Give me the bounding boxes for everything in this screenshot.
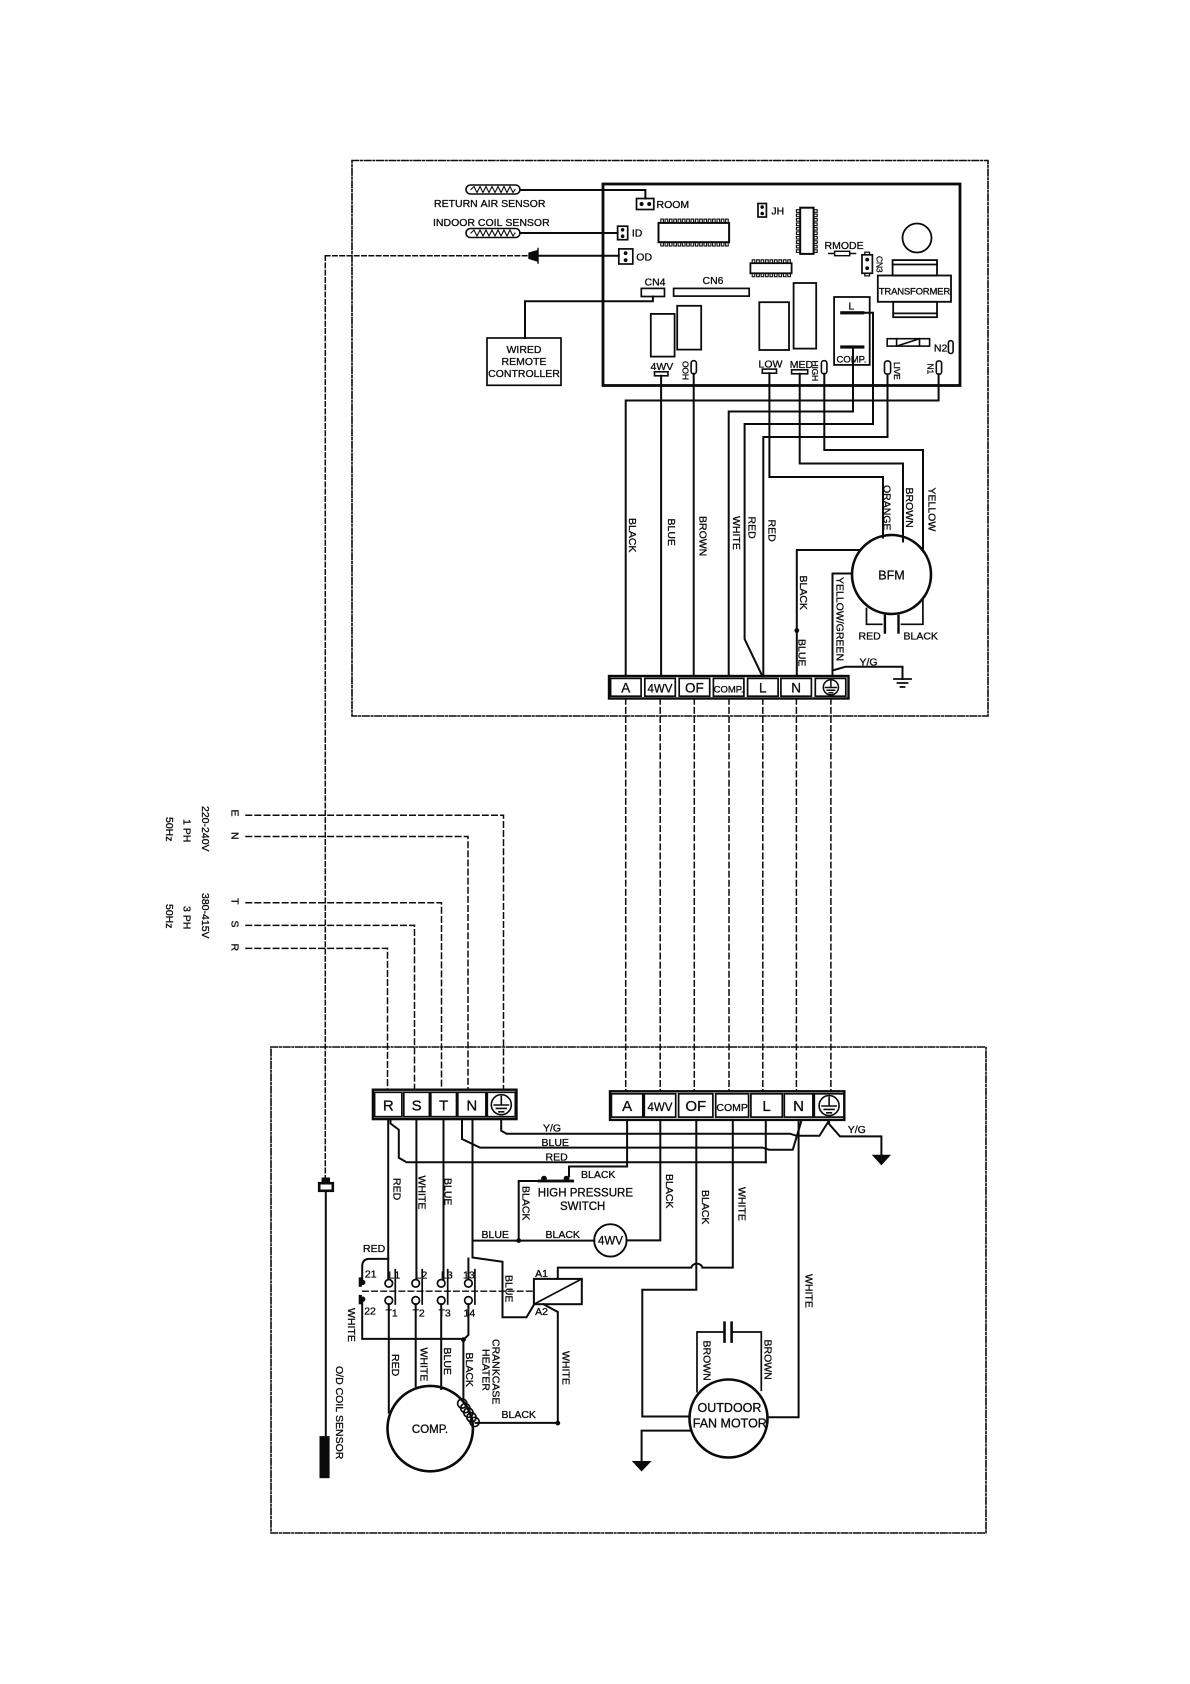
buzzer (circle) — [903, 224, 932, 253]
dashed interconnect wire 4WV: indoor to outdoor — [659, 699, 661, 1091]
dashed supply wire R — [246, 948, 388, 1089]
outdoor interconnect terminal cell A — [611, 1094, 642, 1117]
outdoor interconnect terminal cell OF — [679, 1094, 713, 1117]
relay K2 — [677, 306, 701, 350]
wire: supply N down / jog to A2 link — [473, 1119, 534, 1317]
junction: heater/A2 node — [555, 1421, 560, 1426]
svg-text:OF: OF — [685, 681, 704, 696]
outdoor fan motor — [690, 1380, 768, 1458]
wire BLACK: N1 pin to terminal A — [626, 374, 939, 676]
outdoor supply terminal cell T — [431, 1092, 457, 1116]
relay K1 — [651, 314, 675, 357]
svg-text:E: E — [229, 810, 241, 817]
svg-text:HIGH: HIGH — [810, 361, 820, 382]
junction: 4WV node — [516, 1238, 521, 1243]
svg-text:A1: A1 — [535, 1268, 548, 1280]
ground symbol (fan motor) — [633, 1462, 651, 1471]
svg-text:LIVE: LIVE — [892, 362, 902, 380]
connector ROOM — [637, 199, 654, 210]
svg-text:14: 14 — [464, 1308, 476, 1320]
wire RED: supply R to contactor L1 — [387, 1119, 389, 1279]
svg-text:BLACK: BLACK — [463, 1353, 475, 1387]
svg-text:T: T — [229, 898, 241, 905]
svg-text:BLUE: BLUE — [503, 1275, 515, 1302]
wire BLACK/BLUE: BFM to terminal N — [797, 550, 861, 676]
contactor coil terminal dots — [360, 1280, 365, 1285]
connector ID — [618, 226, 628, 240]
wire YELLOW: HIGH pin to fan motor BFM — [824, 374, 923, 551]
wire Y/G to chassis ground — [833, 667, 903, 679]
svg-text:N1: N1 — [926, 364, 936, 375]
svg-text:COMP.: COMP. — [412, 1424, 448, 1436]
indoor fan motor BFM — [852, 535, 931, 614]
svg-text:BLUE: BLUE — [441, 1348, 453, 1375]
wire: interconnect L drop — [765, 1120, 767, 1162]
dashed interconnect wire A: indoor to outdoor — [625, 699, 627, 1091]
wire WHITE: coil 22 to aux contact 14 — [362, 1302, 463, 1339]
svg-text:WHITE: WHITE — [803, 1274, 815, 1308]
wire: aux 13 riser — [467, 1259, 469, 1280]
outdoor supply terminal cell R — [375, 1092, 402, 1116]
dashed interconnect wire L: indoor to outdoor — [762, 699, 764, 1091]
svg-text:BLACK: BLACK — [626, 518, 638, 552]
svg-text:CN6: CN6 — [703, 275, 724, 287]
junction: black-blue splice — [794, 628, 799, 633]
outdoor supply terminal cell earth — [487, 1092, 515, 1116]
wire YELLOW/GREEN: BFM to terminal earth — [833, 574, 853, 677]
resistor RMODE component — [829, 253, 856, 255]
svg-text:HIGH PRESSURE: HIGH PRESSURE — [538, 1188, 634, 1200]
svg-text:4WV: 4WV — [598, 1236, 623, 1248]
dashed wire: O/D coil sensor line (horizontal run) — [325, 255, 527, 257]
svg-text:COMP.: COMP. — [714, 685, 744, 696]
svg-text:REMOTE: REMOTE — [502, 356, 547, 368]
indoor terminal earth symbol — [823, 680, 838, 695]
indoor coil sensor probe — [466, 229, 520, 238]
svg-text:BLACK: BLACK — [797, 576, 809, 610]
wire WHITE: interconnect COMP to coil A1 (hop over OF) — [558, 1120, 733, 1279]
svg-text:BLUE: BLUE — [542, 1137, 569, 1149]
outdoor supply terminal cell S — [404, 1092, 430, 1116]
wire WHITE: coil A2 to heater node — [544, 1304, 558, 1423]
contactor coil terminal 21/22 (RED feed) — [362, 1259, 388, 1280]
wired remote controller box — [487, 338, 561, 385]
indoor terminal cell 4WV — [645, 678, 676, 696]
outdoor interconnect terminal cell 4WV — [644, 1094, 675, 1117]
wire RED: supply R to interconnect L — [391, 1119, 766, 1162]
svg-text:LOW: LOW — [759, 359, 783, 371]
dashed supply wire T — [246, 903, 442, 1090]
pin N2 — [948, 341, 953, 354]
crankcase heater coil — [458, 1399, 480, 1427]
outdoor interconnect terminal cell N — [784, 1094, 813, 1117]
svg-text:WHITE: WHITE — [560, 1351, 572, 1385]
wire BLACK: 4WV valve to interconnect 4WV — [627, 1120, 661, 1241]
pin HIGH — [821, 361, 827, 374]
wire BLUE: supply N to 4WV valve node — [473, 1240, 595, 1242]
indoor terminal cell earth — [815, 678, 846, 696]
pad MED — [792, 370, 808, 374]
O/D coil sensor probe — [320, 1436, 330, 1478]
svg-text:A: A — [621, 681, 630, 696]
return air sensor probe — [466, 185, 520, 194]
svg-text:L1: L1 — [389, 1270, 401, 1282]
svg-text:Y/G: Y/G — [848, 1124, 866, 1136]
indoor PCB board outline — [603, 184, 960, 386]
wire WHITE: interconnect N to fan motor — [768, 1120, 799, 1417]
svg-text:3 PH: 3 PH — [181, 906, 193, 929]
svg-text:OUTDOOR: OUTDOOR — [698, 1401, 762, 1415]
wire BLACK: aux 14 to crankcase heater — [463, 1304, 468, 1399]
connector JH — [758, 204, 766, 218]
svg-text:RMODE: RMODE — [825, 240, 864, 252]
compressor relay K5 — [834, 297, 870, 365]
wire BLACK: HP switch to 4WV node — [519, 1181, 538, 1241]
svg-text:CN3: CN3 — [875, 256, 885, 273]
svg-text:CN4: CN4 — [645, 277, 666, 289]
svg-text:T2: T2 — [413, 1308, 425, 1320]
svg-text:L2: L2 — [416, 1270, 428, 1282]
svg-text:BROWN: BROWN — [903, 488, 915, 528]
wire RED: contactor T1 to compressor — [388, 1304, 390, 1412]
ground symbol (outdoor earth) — [873, 1155, 890, 1164]
svg-text:RED: RED — [766, 520, 778, 543]
wire: return air sensor to ROOM connector — [520, 190, 645, 199]
high pressure switch contacts — [538, 1180, 574, 1183]
outdoor interconnect earth symbol — [819, 1096, 839, 1116]
outdoor interconnect terminal cell earth — [814, 1094, 844, 1117]
wire: O/D coil sensor lead (solid) — [325, 1191, 327, 1436]
svg-text:ROOM: ROOM — [657, 199, 690, 211]
wire BLUE: supply N to interconnect N — [462, 1119, 801, 1150]
svg-text:21: 21 — [365, 1269, 377, 1281]
svg-text:4WV: 4WV — [651, 361, 674, 373]
svg-text:N: N — [793, 1098, 804, 1115]
svg-text:L: L — [762, 1098, 770, 1115]
wire: CN4 to wired remote controller — [525, 297, 653, 339]
svg-text:JH: JH — [771, 206, 784, 218]
svg-text:BLACK: BLACK — [502, 1409, 536, 1421]
svg-text:ORANGE: ORANGE — [881, 485, 893, 531]
svg-text:BLUE: BLUE — [442, 1178, 454, 1205]
svg-text:A2: A2 — [535, 1306, 548, 1318]
indoor terminal cell COMP. — [713, 678, 744, 696]
svg-text:FAN MOTOR: FAN MOTOR — [693, 1417, 767, 1431]
svg-text:L: L — [759, 681, 767, 696]
contactor contact L2/T2 — [412, 1280, 420, 1288]
connector OD — [619, 249, 633, 264]
dashed supply wire E — [246, 815, 504, 1089]
svg-text:INDOOR COIL SENSOR: INDOOR COIL SENSOR — [433, 217, 550, 229]
svg-text:OF: OF — [685, 1098, 706, 1115]
svg-text:S: S — [229, 921, 241, 928]
dashed interconnect wire COMP: indoor to outdoor — [728, 699, 730, 1091]
svg-text:T1: T1 — [386, 1308, 398, 1320]
indoor terminal block — [609, 676, 849, 699]
svg-text:OOH: OOH — [681, 361, 691, 380]
indoor unit dashed enclosure — [352, 161, 988, 717]
svg-text:OD: OD — [636, 252, 652, 264]
svg-text:N: N — [466, 1098, 477, 1115]
svg-text:WHITE: WHITE — [736, 1187, 748, 1221]
svg-text:WHITE: WHITE — [345, 1308, 357, 1342]
svg-text:S: S — [412, 1098, 422, 1115]
wire WHITE: relay K5 to terminal COMP. — [729, 348, 853, 676]
pin N1 — [936, 361, 941, 374]
wire BLACK: interconnect OF to outdoor fan motor — [642, 1120, 696, 1417]
svg-text:N: N — [791, 681, 801, 696]
dashed wire: O/D coil sensor (vertical run) — [324, 256, 326, 1178]
svg-text:SWITCH: SWITCH — [560, 1201, 605, 1213]
compressor motor COMP. — [388, 1386, 473, 1471]
svg-text:4WV: 4WV — [648, 1102, 673, 1114]
wire: fan motor to ground — [642, 1431, 691, 1462]
svg-text:TRANSFORMER: TRANSFORMER — [879, 287, 951, 298]
contactor contact L3/T3 — [437, 1280, 445, 1288]
svg-text:L3: L3 — [441, 1270, 453, 1282]
wire BLACK: crankcase heater to A2 node — [476, 1422, 558, 1424]
ground symbol (indoor) — [894, 679, 911, 687]
svg-text:4WV: 4WV — [648, 684, 673, 696]
svg-text:RED: RED — [391, 1178, 403, 1201]
wire RED: relay K5 common to terminal L — [745, 313, 873, 676]
outdoor supply terminal cell N — [458, 1092, 486, 1116]
svg-text:COMP: COMP — [716, 1102, 748, 1114]
wire Y/G: interconnect earth to ground — [829, 1120, 881, 1155]
dashed interconnect wire OF: indoor to outdoor — [693, 699, 695, 1091]
wire ORANGE: LOW pad to fan motor BFM — [769, 373, 883, 537]
svg-text:O/D COIL SENSOR: O/D COIL SENSOR — [333, 1366, 345, 1460]
svg-text:A: A — [622, 1098, 632, 1115]
svg-text:Y/G: Y/G — [860, 657, 878, 669]
svg-text:WHITE: WHITE — [416, 1176, 428, 1210]
svg-text:N: N — [229, 832, 241, 840]
svg-text:YELLOW/GREEN: YELLOW/GREEN — [834, 577, 846, 661]
wire BLUE: 4WV pad to terminal 4WV — [660, 376, 662, 676]
svg-text:ID: ID — [632, 228, 643, 240]
wire BROWN: MED pad to fan motor BFM — [800, 374, 903, 542]
svg-text:50Hz: 50Hz — [163, 817, 175, 842]
svg-text:RED: RED — [389, 1354, 401, 1377]
contactor contact 13/14 — [465, 1280, 473, 1288]
svg-text:220-240V: 220-240V — [199, 806, 211, 852]
svg-text:BROWN: BROWN — [697, 516, 709, 556]
outdoor unit dashed enclosure — [271, 1047, 986, 1533]
wire WHITE: supply S to contactor L2 — [415, 1119, 417, 1279]
svg-text:BROWN: BROWN — [701, 1341, 713, 1381]
indoor terminal cell L — [748, 678, 779, 696]
wire BLUE: contactor T3 to compressor — [440, 1304, 442, 1389]
fan motor run capacitor — [697, 1332, 761, 1392]
contactor linkage (dashed) — [363, 1290, 534, 1292]
wire Y/G: supply earth to interconnect earth — [501, 1119, 829, 1136]
wire: indoor coil sensor to ID connector — [520, 232, 618, 234]
svg-text:380-415V: 380-415V — [199, 893, 211, 939]
O/D coil sensor connector plug — [322, 1178, 330, 1184]
contactor contact L1/T1 — [385, 1280, 393, 1288]
svg-text:YELLOW: YELLOW — [926, 488, 938, 532]
wire: OD connector lead — [538, 255, 619, 257]
dashed interconnect wire N: indoor to outdoor — [795, 699, 797, 1091]
wire BLUE: supply T to contactor L3 — [443, 1119, 445, 1279]
wire WHITE: contactor T2 to compressor — [415, 1304, 417, 1386]
indoor terminal cell N — [781, 678, 812, 696]
4WV solenoid valve coil — [594, 1224, 626, 1256]
wire RED: LIVE pin to terminal L — [763, 374, 887, 676]
svg-text:N2: N2 — [934, 343, 948, 355]
svg-text:WHITE: WHITE — [418, 1348, 430, 1382]
svg-text:BLUE: BLUE — [665, 519, 677, 546]
connector CN3 — [862, 252, 872, 276]
svg-text:BLUE: BLUE — [482, 1229, 509, 1241]
svg-text:MED: MED — [790, 359, 814, 371]
pad 4WV — [655, 372, 669, 376]
O/D sensor plug symbol — [529, 249, 538, 264]
BFM run capacitor — [867, 598, 923, 624]
svg-text:RED: RED — [546, 1152, 569, 1164]
transformer T1 — [878, 260, 951, 317]
wire BROWN: OOH pin to terminal OF — [693, 374, 695, 676]
svg-text:RETURN AIR SENSOR: RETURN AIR SENSOR — [434, 198, 546, 210]
outdoor supply terminal block R S T N earth — [373, 1090, 517, 1119]
svg-text:CONTROLLER: CONTROLLER — [488, 368, 560, 380]
svg-text:HEATER: HEATER — [480, 1349, 492, 1391]
wire BLACK: interconnect A to high pressure switch — [569, 1120, 627, 1176]
svg-text:WHITE: WHITE — [730, 516, 742, 550]
svg-text:T: T — [439, 1098, 448, 1115]
IC U2 (vertical DIP) — [800, 208, 813, 254]
svg-text:R: R — [383, 1098, 394, 1115]
pin OOH — [691, 361, 696, 374]
connector CN4 — [641, 288, 664, 296]
outdoor interconnect terminal cell COMP — [716, 1094, 749, 1117]
svg-text:BLUE: BLUE — [796, 639, 808, 666]
indoor terminal cell A — [611, 678, 642, 696]
junction: 22/14 node — [461, 1337, 466, 1342]
outdoor supply earth symbol — [491, 1095, 511, 1115]
svg-text:BLACK: BLACK — [581, 1169, 615, 1181]
svg-text:R: R — [229, 944, 241, 952]
svg-text:BLACK: BLACK — [520, 1186, 532, 1220]
outdoor interconnect terminal cell L — [751, 1094, 782, 1117]
IC U3 (small DIP) — [750, 263, 791, 273]
svg-text:Y/G: Y/G — [543, 1123, 561, 1135]
IC U1 (main microcontroller) — [659, 223, 730, 242]
svg-text:BLACK: BLACK — [699, 1190, 711, 1224]
svg-text:L: L — [849, 301, 855, 313]
outdoor interconnect terminal block A 4WV OF COMP L N earth — [610, 1091, 844, 1120]
dashed supply wire S — [246, 925, 415, 1089]
svg-text:RED: RED — [859, 631, 882, 643]
svg-text:RED: RED — [746, 517, 758, 540]
contactor coil A1/A2 — [534, 1279, 582, 1304]
fuse F1 — [887, 339, 929, 346]
svg-text:BLACK: BLACK — [546, 1229, 580, 1241]
relay K3 — [759, 302, 789, 350]
relay K4 — [794, 283, 817, 349]
svg-text:BFM: BFM — [878, 569, 904, 583]
svg-text:COMP.: COMP. — [837, 355, 867, 366]
pad LOW — [762, 369, 776, 373]
svg-text:1 PH: 1 PH — [181, 819, 193, 842]
pin LIVE — [885, 361, 891, 374]
svg-text:BLACK: BLACK — [663, 1174, 675, 1208]
dashed supply wire N — [246, 837, 468, 1090]
svg-text:22: 22 — [364, 1306, 376, 1318]
svg-text:BLACK: BLACK — [904, 631, 938, 643]
svg-text:RED: RED — [363, 1243, 386, 1255]
svg-text:WIRED: WIRED — [507, 344, 542, 356]
connector CN6 — [674, 288, 750, 296]
svg-text:BROWN: BROWN — [762, 1340, 774, 1380]
dashed interconnect wire earth: indoor to outdoor — [830, 699, 832, 1091]
svg-text:50Hz: 50Hz — [163, 904, 175, 929]
indoor terminal cell OF — [679, 678, 710, 696]
